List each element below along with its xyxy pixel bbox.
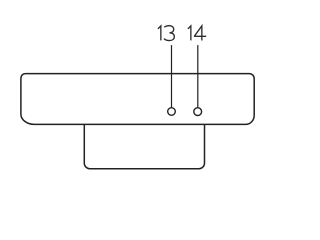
- base pedestal (lower block): [84, 124, 204, 168]
- label 14 digit 1: [188, 26, 191, 41]
- label 13 digit 3: [164, 26, 174, 41]
- hole 13 (small circle): [168, 108, 176, 116]
- label 13 digit 1: [158, 26, 161, 41]
- body outline (upper housing): [21, 74, 254, 125]
- hole 14 (small circle): [194, 108, 202, 116]
- leader line 14: [197, 45, 199, 108]
- label 14 digit 4: [194, 26, 206, 41]
- leader line 13: [171, 45, 173, 108]
